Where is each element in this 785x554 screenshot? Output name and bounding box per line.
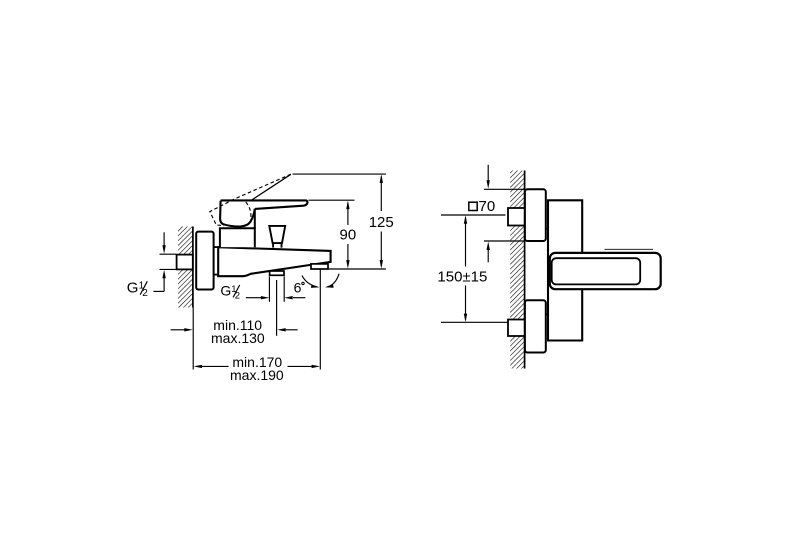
6 degree label — [294, 279, 305, 295]
mixer body front view — [548, 200, 582, 340]
6 degree arc right branch with arrowhead — [327, 274, 339, 287]
wall face line right figure — [524, 171, 526, 369]
150 dimension upper extension line — [441, 214, 506, 216]
escutcheon bottom extension line — [484, 240, 525, 242]
handle outer outline front view — [550, 253, 661, 289]
lower nipple square — [508, 320, 525, 337]
upper escutcheon front view — [525, 189, 546, 241]
svg-text:70: 70 — [479, 198, 496, 215]
outlet center extension line (min110) — [276, 280, 278, 336]
dimension 150+-15 — [437, 215, 487, 322]
handle top surface thin line — [605, 248, 654, 250]
6 degree arc left branch with arrowhead — [302, 276, 318, 288]
outlet extension lines — [268, 277, 270, 302]
G1/2 label under spout — [220, 283, 240, 302]
lever beam top and nose — [221, 200, 308, 209]
inlet square nipple in wall — [177, 255, 193, 270]
square symbol of 70 label — [469, 202, 477, 210]
escutcheon top extension line — [484, 188, 525, 190]
svg-text:125: 125 — [369, 214, 394, 231]
extension line from beam top (90 top) — [309, 199, 355, 201]
neck between escutcheon and body — [214, 246, 219, 248]
svg-text:max.190: max.190 — [230, 367, 284, 383]
svg-text:90: 90 — [340, 226, 357, 243]
arrow above nipple pointing down — [163, 232, 165, 246]
escutcheon plate side view — [196, 232, 213, 290]
body and spout outline — [218, 247, 330, 276]
150 dimension lower extension line — [441, 321, 508, 323]
svg-text:150±15: 150±15 — [437, 268, 487, 285]
lower escutcheon front view — [525, 300, 546, 352]
diverter knob neck — [272, 243, 274, 248]
shower hose outlet under spout — [270, 271, 284, 275]
wall hatch left figure — [178, 227, 193, 308]
arrow below nipple pointing up — [163, 278, 165, 291]
lever cap front vertical edge — [254, 209, 256, 228]
svg-text:max.130: max.130 — [211, 330, 265, 346]
svg-text:G: G — [220, 283, 231, 299]
dimension min110/max130 — [171, 317, 298, 346]
lever blade dashed upper edge (phantom) — [210, 174, 291, 226]
wall face extension line down to min dims — [192, 308, 194, 370]
wall face line left figure — [192, 227, 194, 308]
dimension 125 — [369, 174, 394, 268]
aerator axis extension line (min170 + 6deg) — [319, 269, 321, 369]
svg-text:G: G — [127, 280, 139, 297]
dimension min170/max190 — [194, 354, 321, 383]
tick line below nipple — [160, 268, 177, 270]
extension line from lever tip (125 top) — [293, 173, 386, 175]
jog line between upper escutcheon and body — [546, 228, 549, 230]
top arrow pointing down at escutcheon top level — [487, 165, 489, 181]
handle inner face outline — [552, 258, 641, 284]
leader line to G1/2 label — [153, 290, 164, 292]
extension line from aerator bottom (90/125 bottom) — [329, 268, 386, 270]
cartridge block — [220, 228, 255, 247]
svg-text:6: 6 — [294, 279, 302, 295]
dimension 90 — [340, 201, 357, 269]
wall hatch right figure — [510, 171, 525, 369]
upper nipple square — [508, 208, 525, 226]
tick line above nipple — [160, 253, 177, 255]
G1/2 outlet dimension arrows — [246, 297, 261, 299]
G1/2 label left — [127, 280, 149, 299]
phantom dashed curve right of lever cap — [246, 202, 251, 222]
lever cap bold outline — [220, 201, 255, 227]
lower 70-arrow pointing up — [487, 250, 489, 263]
diverter knob — [269, 226, 285, 243]
jog line between lower escutcheon and body — [546, 313, 549, 315]
lever blade solid lower edge — [252, 174, 291, 200]
aerator outlet at spout tip — [311, 264, 328, 269]
